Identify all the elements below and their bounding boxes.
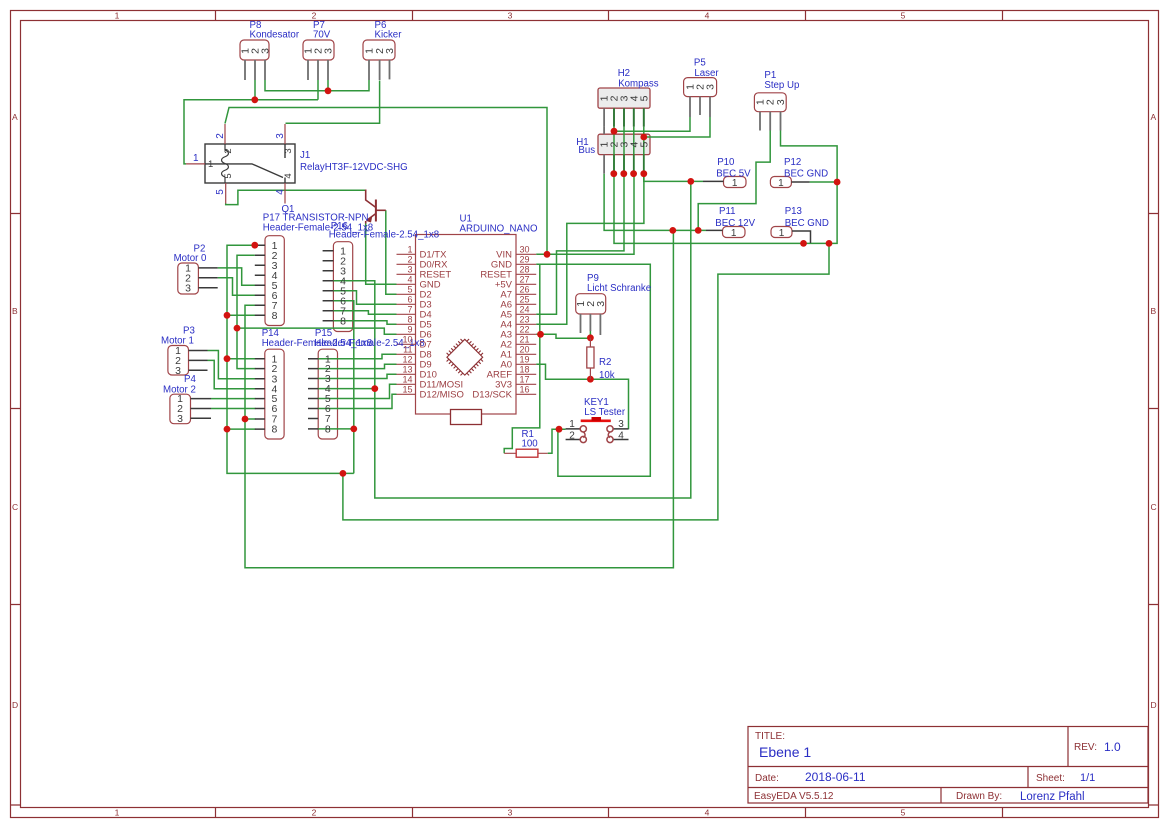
svg-text:1: 1: [779, 228, 785, 239]
pins P15: [308, 359, 318, 429]
wire H1 pin overlays: [614, 155, 644, 174]
svg-text:3: 3: [618, 419, 624, 430]
svg-text:P12: P12: [784, 157, 801, 168]
label P11: [715, 206, 755, 229]
chip glyph U1: [447, 339, 483, 375]
svg-text:Kondesator: Kondesator: [250, 30, 300, 41]
wire Q1 base-U1.5: [386, 210, 397, 294]
svg-text:Step Up: Step Up: [764, 80, 799, 91]
label KEY1: [584, 397, 626, 418]
junction 12V node A: [669, 227, 676, 234]
wire P16.5-U1.6: [333, 291, 396, 305]
wire P15.6-D12: [318, 394, 396, 408]
wire P3.1-P14.3: [208, 351, 256, 379]
svg-text:P13: P13: [785, 206, 802, 217]
label P7: [313, 20, 331, 41]
label H2: [618, 68, 659, 90]
wire P2.2-P17.6: [218, 278, 256, 295]
svg-text:11: 11: [403, 344, 412, 354]
pin numbers P15: [325, 353, 331, 435]
resistor R2: [587, 338, 594, 379]
svg-text:5: 5: [223, 173, 234, 178]
label P2: [174, 243, 207, 264]
svg-text:D: D: [1151, 700, 1157, 710]
pin names J1 gray: [208, 148, 294, 178]
resistor R1: [504, 449, 548, 457]
pins P2: [198, 268, 217, 288]
pins J1: [186, 124, 285, 204]
svg-text:10: 10: [402, 334, 412, 344]
svg-text:3: 3: [407, 264, 412, 274]
ruler ticks right: [1149, 214, 1159, 806]
junction P17.1 node: [251, 242, 258, 249]
svg-text:4: 4: [283, 173, 294, 178]
pin numbers U1 left: [402, 244, 412, 394]
svg-text:Lorenz Pfahl: Lorenz Pfahl: [1020, 791, 1085, 803]
svg-text:ARDUINO_NANO: ARDUINO_NANO: [460, 223, 539, 234]
header P3 body: [168, 346, 189, 376]
ruler ticks top: [216, 11, 1003, 21]
svg-text:B: B: [12, 306, 18, 316]
wire P15.5-D11: [318, 384, 396, 398]
svg-text:3: 3: [185, 282, 191, 294]
svg-text:22: 22: [520, 324, 530, 334]
svg-text:25: 25: [520, 294, 530, 304]
pin numbers KEY1: [569, 419, 624, 442]
svg-text:H2: H2: [618, 68, 630, 79]
svg-text:2: 2: [223, 148, 234, 153]
wire A3-P9.1: [536, 334, 590, 338]
label P16: [329, 221, 439, 240]
svg-text:REV:: REV:: [1074, 742, 1097, 753]
svg-text:29: 29: [520, 254, 530, 264]
svg-text:Kicker: Kicker: [375, 30, 403, 41]
svg-text:Drawn By:: Drawn By:: [956, 791, 1002, 802]
arduino U1 body: [416, 235, 517, 415]
svg-text:BEC GND: BEC GND: [785, 218, 829, 229]
svg-text:3: 3: [384, 48, 396, 54]
relay J1 switch: [205, 144, 285, 183]
svg-text:1: 1: [115, 807, 120, 817]
label R1: [522, 429, 539, 450]
svg-text:2: 2: [215, 133, 226, 139]
wire P14.8 tap: [227, 428, 256, 430]
junction H1.3 node: [620, 170, 627, 177]
wire P9.2-R2: [589, 331, 591, 338]
label P8: [250, 20, 300, 41]
wire H1.1-P11: [604, 174, 706, 231]
pin numbers P5: [685, 84, 717, 90]
pins H2: [604, 108, 644, 126]
svg-text:6: 6: [407, 294, 412, 304]
svg-text:1: 1: [731, 228, 737, 239]
svg-text:J1: J1: [300, 150, 310, 161]
header P11 body: [723, 227, 746, 238]
wire P15.2-D9: [318, 364, 396, 368]
wire P1.2 link: [698, 131, 770, 231]
junction GND branch node: [826, 240, 833, 247]
svg-text:70V: 70V: [313, 30, 331, 41]
svg-text:27: 27: [520, 274, 530, 284]
svg-text:3: 3: [275, 133, 286, 139]
header H2 body: [598, 88, 650, 108]
svg-text:Kompass: Kompass: [618, 78, 659, 89]
wire P17.7-V5-L3: [245, 231, 673, 568]
svg-text:30: 30: [520, 244, 530, 254]
wire P15.8-V6: [318, 428, 354, 430]
svg-text:5: 5: [215, 189, 226, 195]
svg-text:1: 1: [208, 159, 213, 170]
pins P5: [690, 97, 710, 118]
svg-text:D12/MISO: D12/MISO: [420, 389, 464, 400]
wire P3.2-P14.4: [208, 360, 256, 388]
svg-text:26: 26: [520, 284, 530, 294]
junction P14.1 node: [224, 355, 231, 362]
svg-text:1/1: 1/1: [1080, 772, 1095, 784]
svg-text:3: 3: [323, 48, 335, 54]
wire A5-H1.3: [536, 174, 624, 315]
wire P17.8 tap: [227, 314, 256, 316]
pins P14: [255, 359, 265, 429]
header P1 body: [754, 93, 786, 112]
pins U1 left: [397, 254, 416, 394]
title block frame: [748, 727, 1148, 804]
label P9: [587, 273, 651, 294]
pins P8: [245, 60, 265, 80]
svg-text:23: 23: [520, 314, 530, 324]
wire P2.1-P17.5: [218, 268, 256, 285]
svg-text:16: 16: [520, 384, 530, 394]
wire P15.3-D10: [318, 374, 396, 378]
svg-text:TITLE:: TITLE:: [755, 731, 785, 742]
relay J1 body: [205, 144, 295, 183]
ruler numbers top: [115, 10, 906, 20]
wire bus V1: [227, 245, 354, 473]
svg-text:C: C: [1151, 502, 1157, 512]
svg-text:15: 15: [402, 384, 412, 394]
wire P16.6-V6: [333, 301, 353, 474]
wire H2-H1 pin links: [614, 127, 644, 174]
header P12 body: [770, 177, 791, 188]
pin numbers P2: [185, 263, 191, 295]
pin numbers P3: [175, 345, 181, 377]
wire P12 link: [810, 181, 838, 183]
junction P12 node: [834, 179, 841, 186]
svg-text:3: 3: [508, 808, 513, 818]
label P10: [716, 157, 751, 180]
wire H2 pin overlays: [614, 108, 644, 126]
svg-text:EasyEDA V5.5.12: EasyEDA V5.5.12: [754, 791, 834, 802]
pin labels J1 blue: [193, 133, 286, 195]
wire J1.2-VIN: [225, 108, 547, 255]
svg-text:BEC GND: BEC GND: [784, 169, 828, 180]
junction P7.3 node: [325, 87, 332, 94]
svg-text:5: 5: [901, 11, 906, 21]
svg-text:2: 2: [312, 808, 317, 818]
label P13: [785, 206, 829, 229]
svg-text:10k: 10k: [599, 370, 615, 381]
pins P7: [308, 60, 328, 80]
wire P4.1-P14.5: [211, 398, 256, 400]
junction H2.5 node: [640, 134, 647, 141]
pin numbers P6: [364, 48, 397, 54]
svg-text:3: 3: [595, 301, 607, 307]
pin numbers H2: [599, 95, 651, 101]
pins P9: [581, 314, 601, 335]
junction P13 node: [800, 240, 807, 247]
svg-text:LS Tester: LS Tester: [584, 407, 626, 418]
label P4: [163, 374, 196, 395]
wire Q1 emitter-U1.4: [366, 224, 397, 285]
pins U1 right: [516, 254, 536, 394]
label H1: [576, 137, 595, 156]
pin numbers P1: [755, 99, 788, 105]
junction H1.5 node: [640, 170, 647, 177]
svg-text:100: 100: [522, 439, 539, 450]
svg-text:P10: P10: [717, 157, 735, 168]
svg-text:2018-06-11: 2018-06-11: [805, 770, 866, 784]
header P16 body: [333, 242, 352, 332]
header P10 body: [724, 177, 747, 188]
svg-text:Date:: Date:: [755, 773, 779, 784]
wire P14.1 tap: [227, 358, 256, 360]
junction H1.4 node: [630, 170, 637, 177]
header P4 body: [170, 394, 191, 424]
junction 5V node: [687, 178, 694, 185]
junction VIN node: [544, 251, 551, 258]
junction P14.7 node: [242, 416, 249, 423]
junction P8.2 node: [251, 96, 258, 103]
header P13 body: [771, 227, 792, 238]
pin P10: [703, 180, 724, 182]
label P1: [764, 70, 799, 91]
ruler ticks bottom: [216, 808, 1003, 818]
header P8 body: [240, 40, 269, 60]
wire J1.5-Q1 collector: [226, 190, 366, 204]
svg-text:RelayHT3F-12VDC-SHG: RelayHT3F-12VDC-SHG: [300, 162, 408, 173]
svg-text:3: 3: [705, 84, 717, 90]
svg-text:28: 28: [520, 264, 530, 274]
junction A3 node: [537, 331, 544, 338]
header H1 body: [598, 134, 650, 154]
pins P1: [760, 112, 781, 131]
svg-text:21: 21: [520, 334, 530, 344]
label P14: [262, 328, 372, 349]
svg-text:B: B: [1151, 306, 1157, 316]
label J1: [300, 150, 408, 173]
svg-text:2: 2: [569, 431, 575, 442]
pin numbers P4: [177, 393, 183, 425]
pin P12: [791, 181, 809, 183]
svg-text:24: 24: [520, 304, 530, 314]
wire A4-H1.5b: [536, 174, 644, 325]
svg-text:3: 3: [260, 48, 272, 54]
wire D6 branch: [237, 328, 397, 334]
wire R1-KEY1 riser: [548, 429, 566, 453]
svg-text:8: 8: [407, 314, 412, 324]
wire P16.8-U1.8: [333, 321, 396, 325]
pin P13: [792, 231, 811, 243]
header P15 body: [318, 349, 337, 439]
svg-text:Sheet:: Sheet:: [1036, 773, 1065, 784]
wire H1.2-BECGND: [614, 131, 837, 244]
svg-text:9: 9: [407, 324, 412, 334]
svg-text:5: 5: [407, 284, 412, 294]
svg-text:4: 4: [705, 808, 710, 818]
wire A0-R2-KEY1.3: [536, 364, 628, 429]
svg-text:20: 20: [520, 344, 530, 354]
pin numbers P14: [271, 353, 277, 435]
label Q1: [263, 204, 369, 224]
svg-text:R2: R2: [599, 357, 611, 368]
header P17 body: [265, 236, 284, 326]
relay J1 coil: [222, 144, 229, 183]
svg-text:7: 7: [407, 304, 412, 314]
pin numbers P16: [340, 245, 346, 327]
pin numbers P8: [240, 48, 272, 54]
svg-text:17: 17: [520, 374, 530, 384]
svg-text:C: C: [12, 502, 18, 512]
junction 12V node B: [695, 227, 702, 234]
key switch KEY1: [566, 417, 629, 443]
svg-text:P5: P5: [694, 57, 706, 68]
svg-text:4: 4: [407, 274, 412, 284]
junction D6 net node: [234, 325, 241, 332]
wire P15.4 tap: [318, 388, 375, 390]
pin numbers H1: [599, 142, 651, 148]
junction bus bottom node: [340, 470, 347, 477]
svg-text:12: 12: [402, 354, 412, 364]
svg-text:5: 5: [638, 95, 650, 101]
wire P16.7-U1.7: [333, 311, 396, 315]
svg-text:Licht Schranke: Licht Schranke: [587, 283, 651, 294]
junction P17.8 node: [224, 312, 231, 319]
header P6 body: [363, 40, 395, 60]
svg-text:A: A: [12, 112, 18, 122]
wire GND link loop: [343, 243, 829, 520]
svg-text:3: 3: [177, 413, 183, 425]
svg-text:3: 3: [508, 11, 513, 21]
wire P8.2-P7.2-J1.1: [184, 80, 318, 164]
label R2: [599, 357, 615, 381]
wire H2.2-P5.1: [614, 117, 690, 131]
ruler ticks left: [11, 214, 21, 806]
wire H1.5-P10: [644, 174, 703, 182]
pins H1: [603, 155, 605, 174]
svg-text:3: 3: [775, 99, 787, 105]
pins P16: [323, 251, 334, 321]
junction H2.2 node: [611, 128, 618, 135]
pin numbers P9: [575, 301, 607, 307]
svg-text:8: 8: [340, 315, 346, 327]
junction P15.8 node: [350, 426, 357, 433]
ruler letters left: [12, 112, 18, 710]
svg-text:Ebene 1: Ebene 1: [759, 744, 811, 760]
svg-text:2: 2: [407, 254, 412, 264]
label P3: [161, 326, 195, 347]
junction R2 bottom node: [587, 376, 594, 383]
pins P6: [369, 60, 390, 80]
wire P17.2-P14.2: [237, 255, 256, 368]
svg-text:Laser: Laser: [694, 68, 719, 79]
pin numbers U1 right: [520, 244, 530, 394]
svg-text:1: 1: [407, 244, 412, 254]
svg-text:D: D: [12, 700, 18, 710]
svg-text:Bus: Bus: [578, 145, 595, 156]
label U1: [460, 214, 539, 235]
svg-text:1: 1: [732, 178, 738, 189]
svg-text:1: 1: [778, 178, 784, 189]
svg-text:A: A: [1151, 112, 1157, 122]
wire P8.3-P7.3-P6.1: [265, 80, 369, 91]
junction P14.8 node: [224, 426, 231, 433]
wire KEY1.1 branch: [504, 264, 540, 453]
header P7 body: [303, 40, 334, 60]
svg-text:1: 1: [569, 419, 575, 430]
svg-text:14: 14: [402, 374, 412, 384]
label P15: [314, 328, 424, 349]
pins P3: [189, 351, 208, 371]
ruler numbers bottom: [115, 807, 906, 817]
usb connector U1: [451, 410, 482, 425]
wire P16.4-V7-P5.1 loop: [333, 181, 690, 498]
pin numbers P7: [303, 48, 335, 54]
svg-text:3: 3: [175, 365, 181, 377]
svg-text:5: 5: [901, 808, 906, 818]
svg-text:18: 18: [520, 364, 530, 374]
junction P15.4 node: [371, 385, 378, 392]
svg-text:8: 8: [272, 310, 278, 322]
label P12: [784, 157, 828, 180]
wire GND loop U1.29: [536, 264, 650, 476]
label P6: [375, 20, 403, 41]
header P14 body: [265, 349, 284, 439]
svg-text:D13/SCK: D13/SCK: [472, 389, 512, 400]
svg-text:1.0: 1.0: [1104, 740, 1121, 754]
svg-text:13: 13: [402, 364, 412, 374]
wire P15.1-D8: [318, 354, 396, 358]
ruler letters right: [1151, 112, 1157, 710]
svg-text:4: 4: [705, 11, 710, 21]
svg-text:8: 8: [325, 424, 331, 436]
wire P14.7 tap: [245, 418, 256, 420]
junction R2 top node: [587, 334, 594, 341]
junction KEY1.1 node: [556, 426, 563, 433]
header P5 body: [684, 78, 717, 97]
transistor Q1: [366, 190, 386, 224]
pin P11: [706, 229, 723, 231]
wire VIN-H1.4: [536, 174, 634, 255]
label P5: [694, 57, 720, 78]
header P9 body: [576, 294, 606, 314]
pin names U1 left: [420, 249, 464, 400]
svg-text:1: 1: [115, 10, 120, 20]
wire P6.2-J1.3: [286, 81, 380, 124]
svg-text:5: 5: [638, 142, 650, 148]
svg-text:4: 4: [275, 189, 286, 195]
svg-text:3: 3: [283, 148, 294, 153]
svg-text:2: 2: [312, 11, 317, 21]
svg-text:8: 8: [271, 424, 277, 436]
pins P4: [191, 399, 212, 419]
svg-text:19: 19: [520, 354, 530, 364]
svg-text:P11: P11: [719, 206, 736, 217]
pins P17: [255, 245, 265, 315]
svg-text:Header-Female-2.54_1x8: Header-Female-2.54_1x8: [329, 229, 439, 240]
wire P4.2-P14.6: [211, 408, 256, 410]
header P2 body: [178, 263, 199, 294]
junction H1.2 node: [610, 170, 617, 177]
